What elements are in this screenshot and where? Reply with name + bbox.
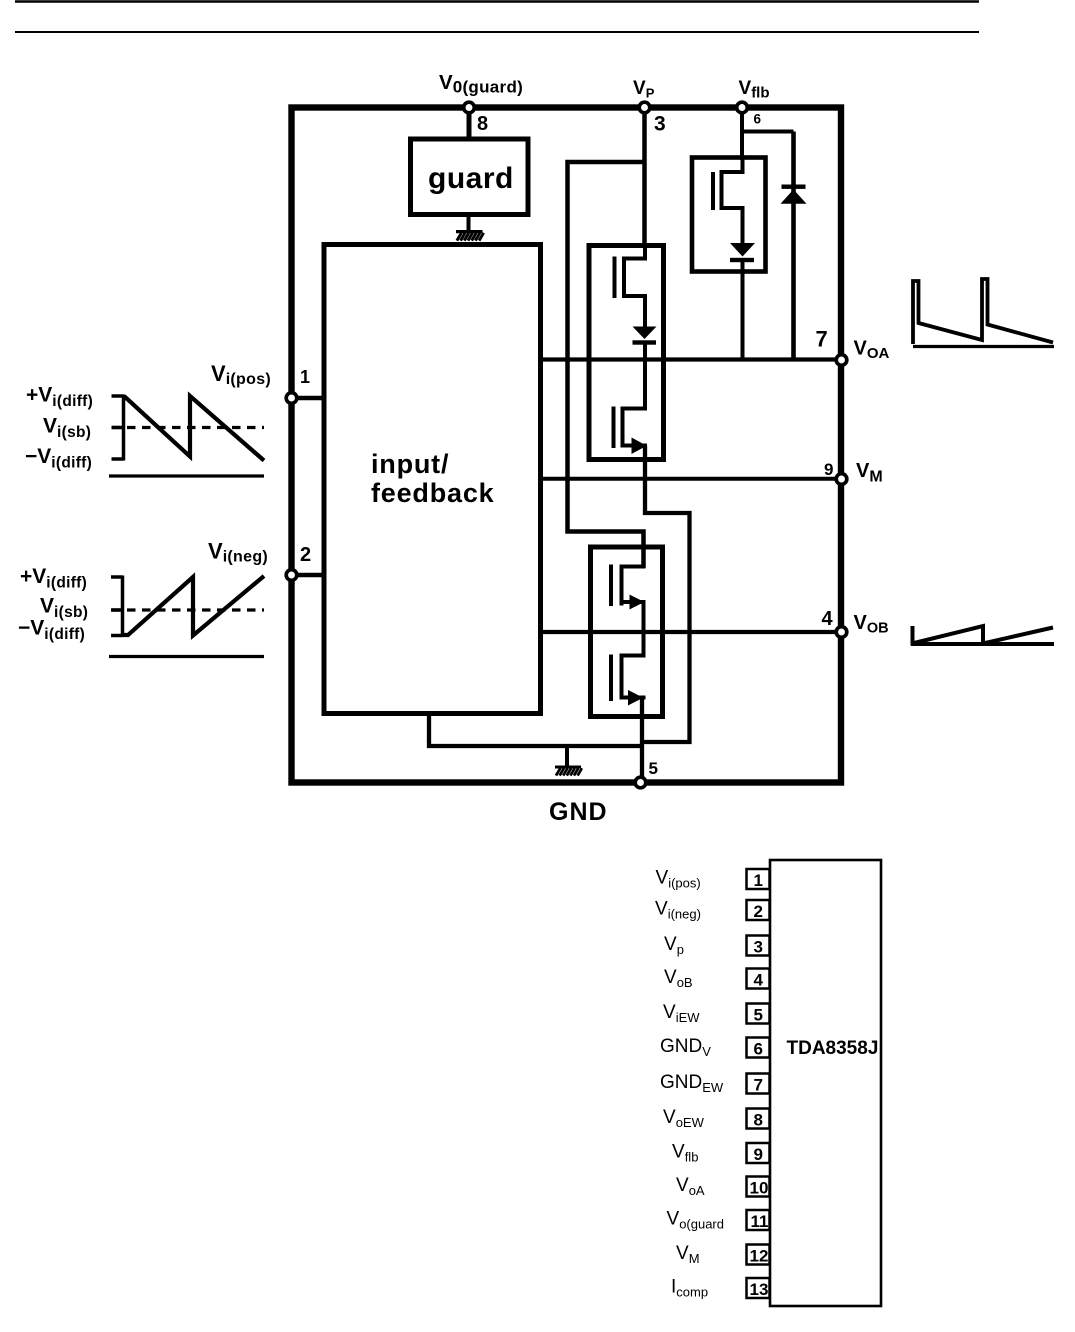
pin 13 box (747, 1278, 770, 1298)
svg-text:3: 3 (754, 938, 763, 957)
waveform Vi(pos) dashed sb level (112, 426, 264, 429)
svg-text:8: 8 (477, 113, 488, 135)
arrow of Q5 source (628, 690, 643, 706)
node 8 V0(guard) (464, 102, 475, 113)
svg-text:7: 7 (816, 327, 828, 352)
IC package TDA8358J body (770, 860, 881, 1306)
pin 9 box (747, 1143, 770, 1163)
pin 6 box (747, 1038, 770, 1058)
wire chassis stub (565, 746, 569, 766)
node 5 GND (635, 777, 646, 788)
wire pin1 stub (293, 396, 326, 401)
pin 4 box (747, 969, 770, 989)
svg-text:6: 6 (754, 112, 762, 127)
waveform Vi(neg) sawtooth (123, 576, 265, 636)
svg-text:1: 1 (754, 871, 763, 890)
waveform VOB baseline (911, 642, 1054, 646)
wire Vflb branch to diode D1 (740, 130, 794, 134)
node 7 VOA (836, 355, 847, 366)
diode of Q1 source (arrow down onto bar) (633, 327, 657, 345)
output stage B guard frame (591, 547, 663, 717)
outer block boundary (292, 108, 842, 783)
pin 12 box (747, 1245, 770, 1265)
svg-text:9: 9 (754, 1145, 763, 1164)
svg-text:2: 2 (754, 902, 763, 921)
wire node8 to guard box (467, 110, 472, 140)
svg-text:feedback: feedback (371, 478, 495, 508)
wire Q3 source to VOA line (741, 260, 745, 360)
svg-text:1: 1 (300, 367, 310, 387)
wire guard box to chassis ground (467, 215, 471, 232)
node 2 Vi(neg) (286, 570, 297, 581)
waveform Vi(pos) baseline (109, 474, 264, 477)
top rule 2 (15, 31, 979, 33)
svg-text:10: 10 (750, 1179, 769, 1198)
pin 1 box (747, 869, 770, 889)
transistor Q5 (stage B lower MOSFET) (611, 632, 646, 701)
output stage A guard frame (589, 246, 664, 460)
svg-text:4: 4 (822, 608, 834, 630)
wire Q5 source to GND node 5 (640, 698, 644, 784)
pin 11 box (747, 1210, 770, 1230)
svg-text:4: 4 (754, 971, 764, 990)
diode D1 (flyback) cathode bar and triangle (781, 185, 807, 204)
pin 7 box (747, 1074, 770, 1094)
waveform VOB axis (911, 626, 915, 646)
pin 5 box (747, 1004, 770, 1024)
VOA net line (541, 357, 842, 361)
wire VP node down to output stage A (642, 110, 647, 248)
waveform VOA baseline (913, 345, 1054, 348)
input/feedback block (324, 245, 541, 714)
wire Q1 diode to VOA line (643, 342, 647, 360)
transistor Q3 (Vflb MOSFET with series diode) (713, 159, 745, 244)
arrow of Q2 source (632, 438, 647, 455)
wire pin2 stub (293, 573, 326, 578)
svg-text:5: 5 (754, 1006, 763, 1025)
svg-text:11: 11 (751, 1212, 769, 1231)
waveform Vi(neg) axis (111, 576, 123, 638)
diode of Q3 source (arrow down onto bar) (730, 243, 755, 262)
pin 8 box (747, 1109, 770, 1129)
svg-text:9: 9 (824, 460, 833, 479)
wire diode D1 anode branch down to VOA line (791, 132, 796, 360)
waveform Vi(neg) dashed sb level (112, 608, 264, 611)
node 6 Vflb (737, 102, 748, 113)
svg-text:6: 6 (754, 1040, 763, 1059)
VOB net line (541, 630, 842, 634)
VM net line (541, 477, 842, 481)
node 4 VOB (836, 627, 847, 638)
wire VP branch to stage B drain rail (568, 162, 645, 568)
wire input/feedback ground return (429, 714, 642, 746)
pin 2 box (747, 900, 770, 920)
transistor Q4 (stage B upper MOSFET) (611, 548, 646, 632)
svg-text:input/: input/ (371, 449, 449, 479)
svg-text:guard: guard (428, 162, 514, 195)
node 3 VP (639, 102, 650, 113)
svg-text:8: 8 (754, 1111, 763, 1130)
svg-text:TDA8358J: TDA8358J (787, 1038, 879, 1059)
wire Q2 source down and jog right (644, 446, 690, 743)
waveform VOB sawtooth (912, 626, 1053, 644)
svg-text:3: 3 (654, 113, 666, 136)
waveform Vi(neg) baseline (109, 655, 264, 658)
top rule 1 (15, 0, 979, 3)
waveform VOA flyback (913, 279, 1053, 344)
transistor Q3 guard frame (Vflb switch) (692, 158, 766, 272)
svg-text:12: 12 (750, 1247, 769, 1266)
svg-text:13: 13 (750, 1280, 769, 1299)
transistor Q2 (stage A lower MOSFET) (614, 360, 648, 449)
pin 10 box (747, 1177, 770, 1197)
guard block (411, 139, 529, 215)
waveform Vi(pos) sawtooth (124, 396, 264, 461)
svg-text:7: 7 (754, 1076, 763, 1095)
chassis ground near GND (555, 767, 582, 776)
svg-text:5: 5 (649, 759, 658, 778)
svg-text:GND: GND (549, 798, 608, 826)
svg-text:2: 2 (300, 544, 311, 566)
wire node6 Vflb down (740, 110, 744, 160)
waveform Vi(pos) axis (112, 395, 124, 461)
chassis ground under guard (456, 232, 484, 241)
node 9 VM (836, 474, 847, 485)
arrow of Q4 source (630, 595, 645, 610)
node 1 Vi(pos) (286, 393, 297, 404)
pin 3 box (747, 936, 770, 956)
transistor Q1 (stage A upper MOSFET) (615, 247, 648, 327)
